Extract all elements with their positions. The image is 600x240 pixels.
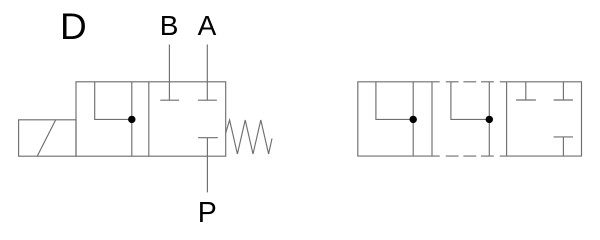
valve V1 blocked port B bar [160, 99, 179, 101]
junction dot V2 left [410, 116, 417, 123]
valve V2 right square outline [500, 82, 582, 156]
valve V1 blocked port P stub [206, 138, 208, 157]
solenoid actuator box [19, 120, 76, 156]
valve V2 left square outline [358, 82, 440, 156]
valve V2 left square vertical flow path [412, 82, 414, 156]
valve V1 left square L flow path [95, 82, 132, 120]
valve V1 position divider [148, 82, 150, 156]
valve V2 blocked port B bar [516, 99, 536, 101]
solenoid diagonal stroke [37, 120, 56, 156]
valve V2 blocked port P stub [562, 137, 564, 156]
transition square L flow path [451, 82, 489, 120]
valve V2 blocked port A stub [562, 82, 564, 100]
valve V2 blocked port B stub [525, 82, 527, 100]
valve V1 blocked port B stub [168, 82, 170, 100]
label P (port P) [198, 199, 217, 228]
transition square vertical flow path [488, 82, 490, 156]
wire port A leader [206, 45, 208, 82]
label B (port B) [160, 12, 179, 40]
valve V1 body outline [76, 82, 226, 156]
valve V1 left square vertical flow path [131, 82, 133, 156]
transition square dashed bottom edge [446, 155, 494, 157]
wire port P leader [206, 156, 208, 192]
valve V2 left square L flow path [376, 82, 413, 120]
label D (spool designation) [60, 8, 87, 45]
valve V1 blocked port A bar [198, 99, 217, 101]
valve V1 blocked port P bar [198, 137, 218, 139]
label A (port A) [198, 12, 217, 40]
junction dot V1 [128, 116, 135, 123]
junction dot transition [486, 116, 493, 123]
valve V1 blocked port A stub [206, 82, 208, 100]
return spring [226, 120, 272, 154]
valve V2 blocked port A bar [554, 99, 573, 101]
transition square dashed top edge [446, 81, 494, 83]
wire port B leader [168, 45, 170, 82]
valve V2 blocked port P bar [554, 136, 573, 138]
